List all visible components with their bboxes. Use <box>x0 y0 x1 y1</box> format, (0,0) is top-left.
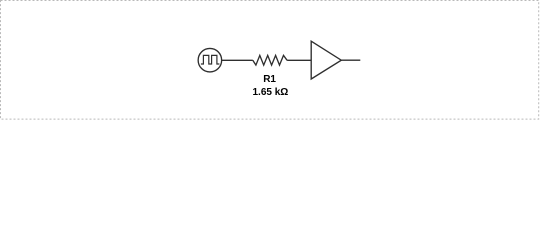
voltage source V1 (square-wave source) <box>198 48 222 71</box>
square-wave glyph inside source <box>201 55 220 64</box>
wire source to resistor <box>222 59 253 61</box>
output wire <box>341 59 360 61</box>
dashed selection border <box>1 1 539 120</box>
svg-text:1.65 kΩ: 1.65 kΩ <box>252 87 288 98</box>
buffer amplifier (triangle) <box>311 41 341 79</box>
wire resistor to buffer <box>287 59 311 61</box>
svg-text:R1: R1 <box>263 74 276 85</box>
resistor R1 zigzag <box>253 55 287 65</box>
